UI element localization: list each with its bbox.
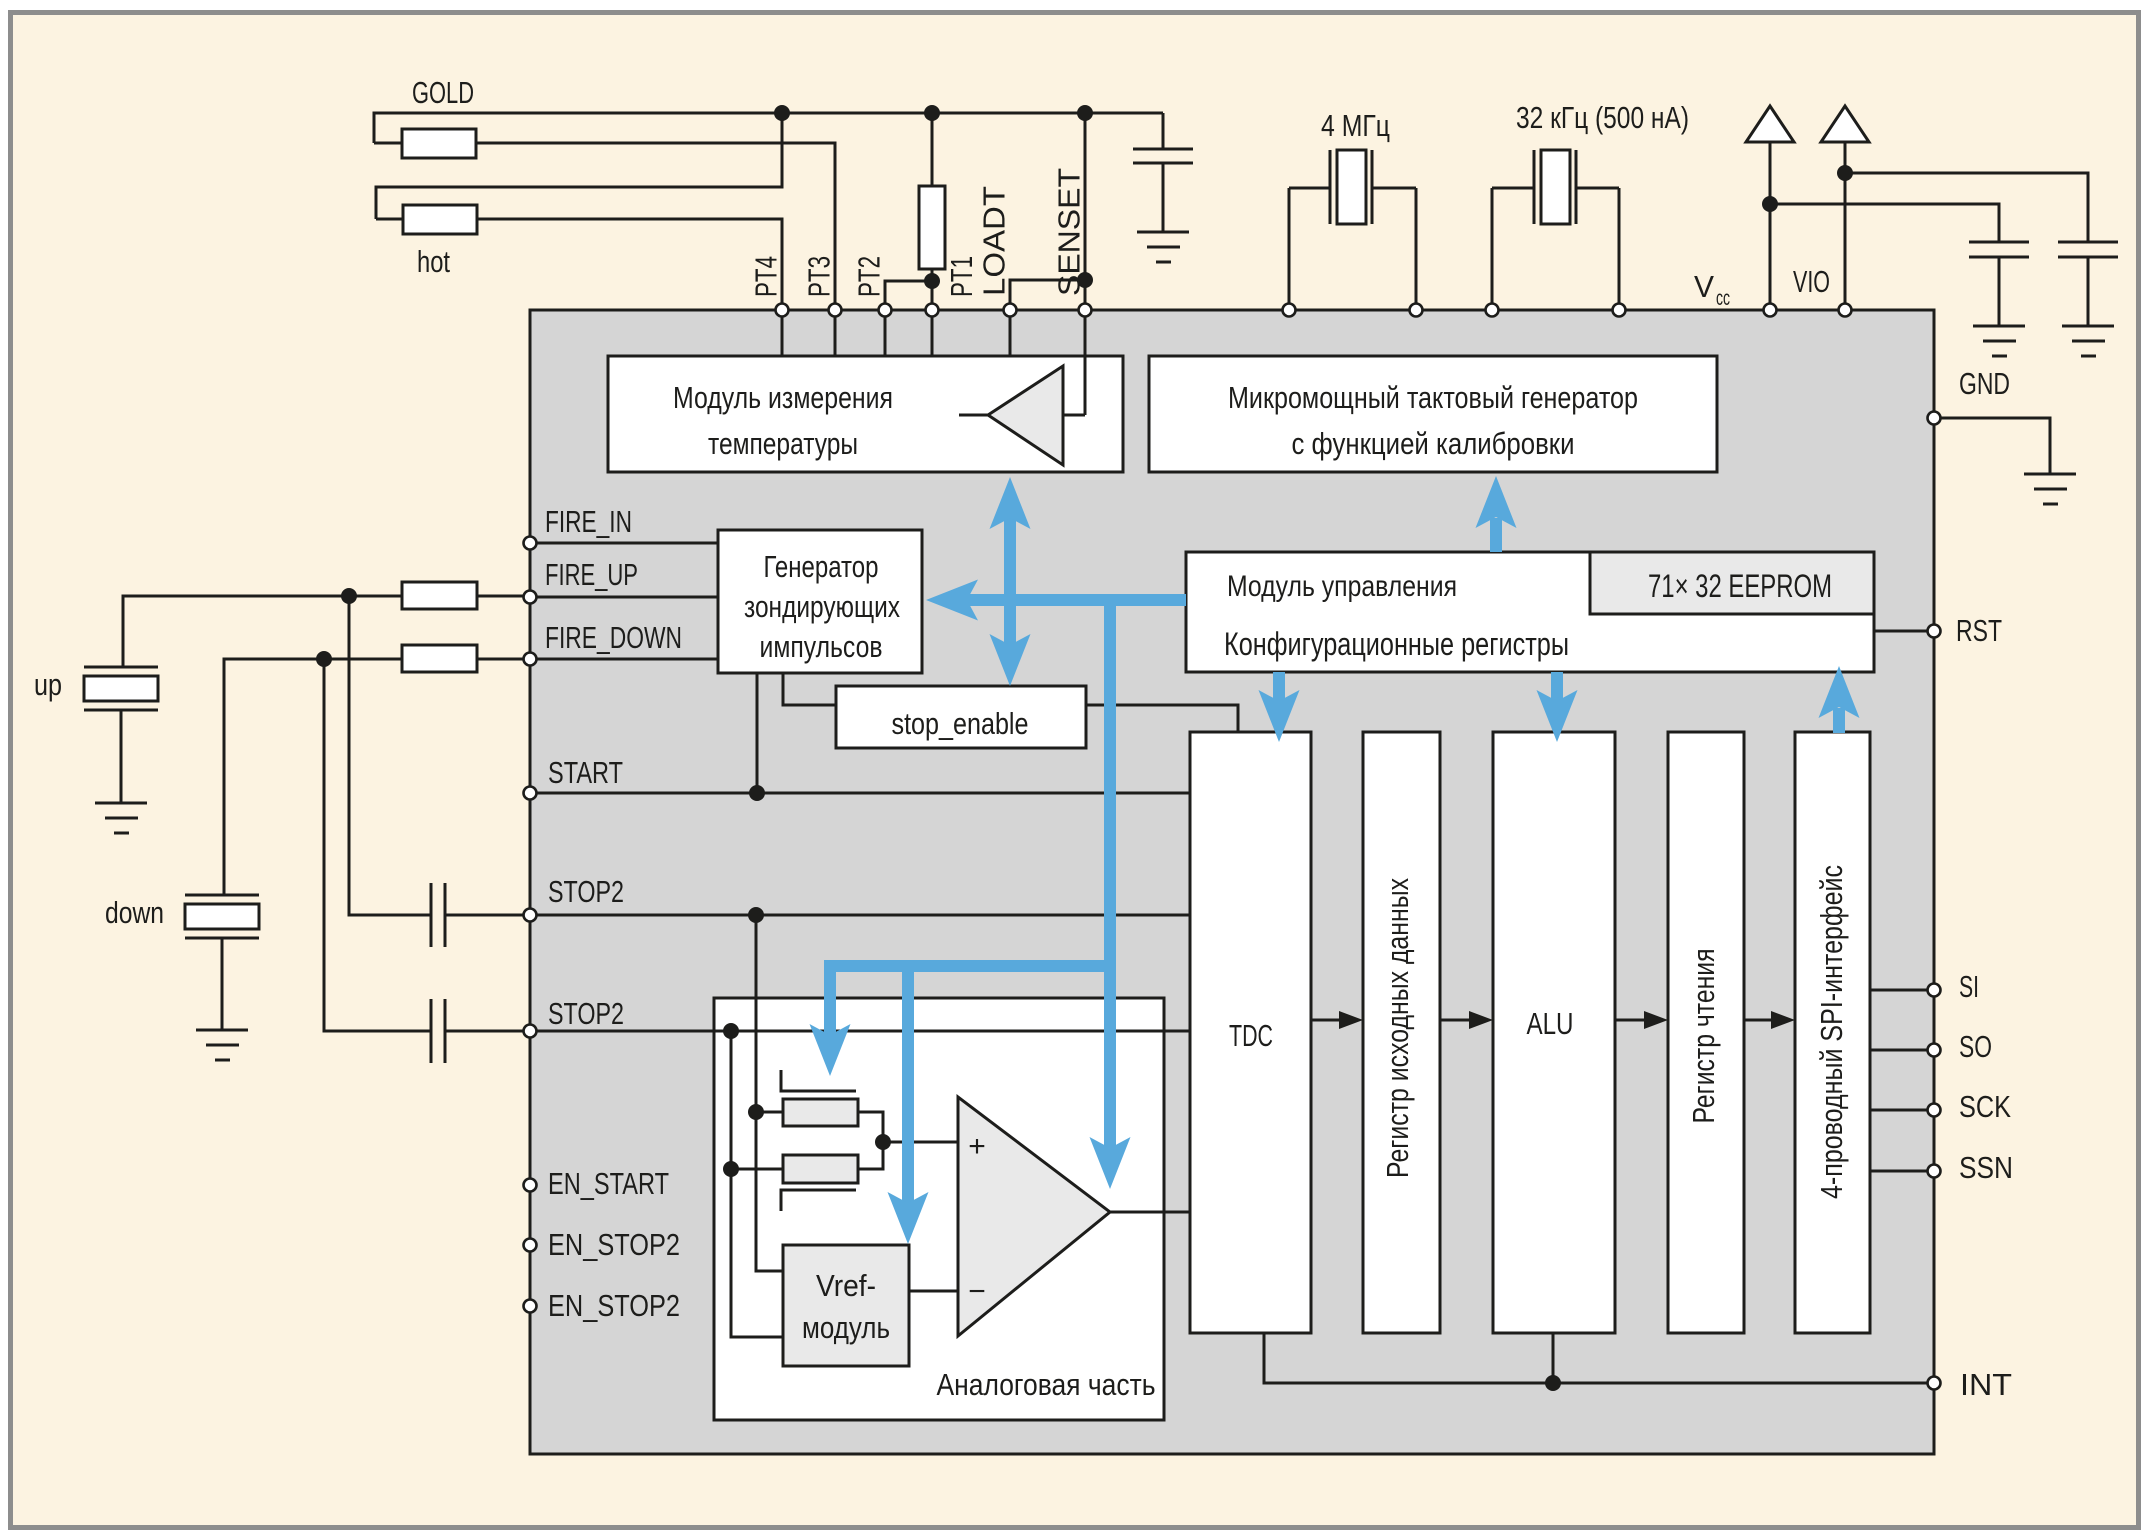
wire R-up right <box>858 1112 883 1169</box>
ground C4 <box>2062 325 2114 328</box>
svg-text:hot: hot <box>417 244 450 279</box>
arrow TDC to reg1 <box>1311 1019 1341 1022</box>
register SPI box <box>1795 732 1870 1333</box>
register TDC box <box>1190 732 1311 1333</box>
pin RST <box>1928 625 1941 638</box>
svg-text:температуры: температуры <box>708 426 858 461</box>
wire Vcc <box>1769 142 1772 310</box>
wire Vcc to C3 <box>1770 204 1999 242</box>
wire PT1 column <box>931 113 934 186</box>
blue arrow to R-up <box>824 960 836 1037</box>
pin STOP2-1 <box>524 909 537 922</box>
node INT <box>1545 1375 1561 1391</box>
wire GOLD top rail <box>374 113 1163 143</box>
svg-text:Аналоговая часть: Аналоговая часть <box>937 1367 1156 1402</box>
module clock-generator box <box>1149 356 1717 472</box>
node LOADT/SENSET junction <box>1077 272 1093 288</box>
pin XOUT2 <box>1613 304 1626 317</box>
bracket R-down <box>781 1190 856 1211</box>
capacitor C2 <box>430 999 433 1063</box>
pin PT4 <box>776 304 789 317</box>
wire comparator out <box>1110 1211 1190 1214</box>
node START <box>749 785 765 801</box>
node PT2/PT1 junction <box>924 273 940 289</box>
node STOP2-2 <box>723 1023 739 1039</box>
svg-text:FIRE_DOWN: FIRE_DOWN <box>545 620 682 655</box>
svg-text:SSN: SSN <box>1959 1150 2013 1185</box>
svg-text:32 кГц (500 нА): 32 кГц (500 нА) <box>1516 100 1689 135</box>
svg-text:модуль: модуль <box>802 1310 890 1345</box>
wire FIRE_UP internal <box>530 596 718 599</box>
svg-text:TDC: TDC <box>1229 1018 1273 1053</box>
arrow ALU to reg2 <box>1615 1019 1646 1022</box>
svg-text:GND: GND <box>1959 366 2010 401</box>
capacitor C4 <box>2058 241 2118 244</box>
pin FIRE_IN <box>524 537 537 550</box>
wire VIO to C4 <box>1845 173 2088 242</box>
pin SCK <box>1928 1104 1941 1117</box>
module temperature-measure box <box>608 356 1123 472</box>
node R-up tap <box>748 1104 764 1120</box>
arrow reg2 to SPI <box>1744 1019 1773 1022</box>
blue arrow temp/stop_enable <box>1004 516 1016 647</box>
svg-text:+: + <box>968 1130 986 1163</box>
svg-text:4-проводный SPI-интерфейс: 4-проводный SPI-интерфейс <box>1814 865 1849 1199</box>
wire INT <box>1264 1333 1934 1383</box>
module fire-pulse-generator box <box>718 530 922 673</box>
register raw-data box <box>1363 732 1440 1333</box>
pin EN_START <box>524 1179 537 1192</box>
module stop_enable box <box>836 686 1086 748</box>
node FIRE_DOWN <box>316 651 332 667</box>
pin LOADT <box>1004 304 1017 317</box>
wire hot top <box>376 113 782 219</box>
wire LOADT elbow <box>1010 280 1085 310</box>
resistor R-firedown <box>402 645 477 672</box>
node rail PT1 <box>924 105 940 121</box>
blue arrow control to TDC <box>1273 672 1285 703</box>
node R-down tap <box>723 1161 739 1177</box>
wire PT2 elbow <box>885 281 932 310</box>
ground C-load <box>1137 231 1189 234</box>
node FIRE_UP <box>341 588 357 604</box>
svg-text:START: START <box>548 755 623 790</box>
transducer down <box>185 894 259 897</box>
wire R-hot to PT4 <box>477 219 782 310</box>
pin FIRE_DOWN <box>524 653 537 666</box>
svg-text:SCK: SCK <box>1959 1089 2011 1124</box>
svg-text:PT4: PT4 <box>749 256 784 297</box>
blue arrow control to generator <box>964 594 1186 606</box>
wire Vref to comparator minus <box>909 1290 958 1293</box>
wire STOP2-2 internal <box>530 1030 1190 1033</box>
svg-text:SI: SI <box>1959 969 1979 1004</box>
node STOP2-1 <box>748 907 764 923</box>
wire pins to temp module <box>781 310 784 356</box>
svg-text:PT2: PT2 <box>852 256 887 297</box>
pin GND <box>1928 412 1941 425</box>
svg-text:EN_STOP2: EN_STOP2 <box>548 1227 680 1262</box>
wire GND <box>1934 418 2050 474</box>
svg-text:GOLD: GOLD <box>412 75 474 110</box>
svg-text:PT1: PT1 <box>944 256 979 297</box>
svg-text:PT3: PT3 <box>802 256 837 297</box>
pin XIN2 <box>1486 304 1499 317</box>
wire STOP2-1 internal <box>530 914 1190 917</box>
svg-text:4 МГц: 4 МГц <box>1321 108 1390 143</box>
svg-text:71× 32 EEPROM: 71× 32 EEPROM <box>1648 568 1832 604</box>
svg-text:Модуль измерения: Модуль измерения <box>673 380 893 415</box>
comparator <box>958 1097 1110 1336</box>
wire rail to C-load <box>1162 113 1165 149</box>
ground up <box>95 802 147 805</box>
capacitor C1 <box>430 883 433 947</box>
svg-text:Генератор: Генератор <box>764 549 879 584</box>
register read box <box>1668 732 1744 1333</box>
module Vref box <box>783 1245 909 1366</box>
wire to R-up <box>756 1111 783 1114</box>
svg-text:SENSET: SENSET <box>1052 168 1087 296</box>
wire SENSET to op-amp <box>1084 310 1087 415</box>
node VIO <box>1837 165 1853 181</box>
node Vcc <box>1762 196 1778 212</box>
wire STOP2-2 external <box>324 659 431 1031</box>
svg-text:импульсов: импульсов <box>760 629 883 664</box>
capacitor C3 <box>1969 241 2029 244</box>
power symbol VIO <box>1821 106 1869 142</box>
svg-text:Микромощный тактовый генератор: Микромощный тактовый генератор <box>1228 380 1638 415</box>
svg-text:VIO: VIO <box>1793 264 1830 299</box>
ground C3 <box>1973 325 2025 328</box>
transducer up <box>84 666 158 669</box>
node rail PT4 <box>774 105 790 121</box>
module control box <box>1186 552 1874 672</box>
pin STOP2-2 <box>524 1025 537 1038</box>
wire FIRE_DOWN left <box>224 659 402 895</box>
pin PT3 <box>829 304 842 317</box>
blue line control down <box>1104 594 1116 1150</box>
bracket R-up <box>781 1070 856 1091</box>
resistor R-hot <box>376 218 403 221</box>
module EEPROM box <box>1590 552 1874 614</box>
blue arrow control to ALU <box>1551 672 1563 703</box>
svg-text:STOP2: STOP2 <box>548 874 624 909</box>
svg-text:Регистр чтения: Регистр чтения <box>1686 949 1721 1124</box>
svg-text:STOP2: STOP2 <box>548 996 624 1031</box>
capacitor C-load <box>1133 148 1193 151</box>
wire SSN <box>1870 1170 1934 1173</box>
resistor R-gold <box>374 142 402 145</box>
svg-text:up: up <box>34 667 62 702</box>
blue line analog branch <box>824 960 1116 972</box>
power symbol Vcc <box>1746 106 1794 142</box>
pin VIO <box>1839 304 1852 317</box>
wire VIO <box>1844 142 1847 310</box>
resistor R-fireup <box>402 582 477 609</box>
svg-text:с функцией калибровки: с функцией калибровки <box>1292 426 1575 461</box>
wire SCK <box>1870 1109 1934 1112</box>
pin Vcc <box>1764 304 1777 317</box>
wire SI <box>1870 989 1934 992</box>
wire down to ground <box>221 938 224 1030</box>
wire FIRE_DOWN internal <box>530 658 718 661</box>
svg-text:INT: INT <box>1960 1367 2012 1402</box>
svg-text:FIRE_IN: FIRE_IN <box>545 504 632 539</box>
chip body <box>530 310 1934 1454</box>
pin START <box>524 787 537 800</box>
wire FIRE_UP left <box>123 596 402 667</box>
svg-text:EN_START: EN_START <box>548 1166 669 1201</box>
register ALU box <box>1493 732 1615 1333</box>
svg-text:ALU: ALU <box>1527 1006 1574 1041</box>
svg-text:V: V <box>1694 269 1714 304</box>
svg-text:SO: SO <box>1959 1029 1992 1064</box>
wire STOP2-2 tap to Vref <box>731 1031 783 1337</box>
wire generator to START <box>756 673 759 793</box>
wire STOP2-1 external <box>349 596 431 915</box>
node rail SENSET <box>1077 105 1093 121</box>
op-amp temperature <box>988 366 1063 465</box>
analog part box <box>714 998 1164 1420</box>
wire RST <box>1874 630 1934 633</box>
wire to comparator plus <box>883 1141 958 1144</box>
svg-text:LOADT: LOADT <box>977 186 1012 296</box>
blue arrow to Vref <box>902 960 914 1204</box>
pin EN_STOP2-1 <box>524 1239 537 1252</box>
wire to R-down <box>731 1168 783 1171</box>
pin XIN1 <box>1283 304 1296 317</box>
resistor R-down <box>783 1155 858 1183</box>
svg-text:Конфигурационные регистры: Конфигурационные регистры <box>1224 626 1569 662</box>
pin SO <box>1928 1044 1941 1057</box>
resistor R-up <box>783 1099 858 1126</box>
wire X1 legs <box>1288 188 1291 310</box>
wire R-gold to PT3 <box>476 143 835 310</box>
ground GND <box>2024 473 2076 476</box>
blue arrow SPI to control <box>1833 708 1845 733</box>
pin PT1 <box>926 304 939 317</box>
wire up to ground <box>120 710 123 803</box>
wire X2 legs <box>1491 188 1494 310</box>
svg-text:Vref-: Vref- <box>816 1268 876 1303</box>
pin XOUT1 <box>1410 304 1423 317</box>
svg-text:−: − <box>968 1275 986 1308</box>
wire STOP2-1 tap to Vref <box>756 915 783 1271</box>
svg-text:EN_STOP2: EN_STOP2 <box>548 1288 680 1323</box>
svg-text:RST: RST <box>1956 613 2002 648</box>
svg-text:down: down <box>105 895 164 930</box>
svg-text:FIRE_UP: FIRE_UP <box>545 557 638 592</box>
pin SSN <box>1928 1165 1941 1178</box>
svg-text:stop_enable: stop_enable <box>892 706 1029 741</box>
pin PT2 <box>879 304 892 317</box>
svg-text:Регистр исходных данных: Регистр исходных данных <box>1380 878 1415 1178</box>
wire ALU to INT <box>1552 1333 1555 1383</box>
node comparator input <box>875 1134 891 1150</box>
pin INT <box>1928 1377 1941 1390</box>
pin SI <box>1928 984 1941 997</box>
pin FIRE_UP <box>524 591 537 604</box>
svg-text:зондирующих: зондирующих <box>744 589 900 624</box>
wire SENSET column <box>1084 113 1087 310</box>
svg-text:cc: cc <box>1716 287 1730 310</box>
wire SO <box>1870 1049 1934 1052</box>
wire FIRE_IN <box>530 542 718 545</box>
arrow reg1 to ALU <box>1440 1019 1471 1022</box>
svg-text:Модуль управления: Модуль управления <box>1227 570 1457 603</box>
pin SENSET <box>1079 304 1092 317</box>
pin EN_STOP2-2 <box>524 1300 537 1313</box>
crystal X2 32kHz <box>1492 187 1534 190</box>
wire stop_enable to TDC <box>1086 705 1238 732</box>
wire generator to stop_enable <box>783 673 836 705</box>
ground down <box>196 1029 248 1032</box>
blue arrow control to clock <box>1490 518 1502 552</box>
wire START <box>530 792 1190 795</box>
resistor R-pt1 <box>919 186 945 269</box>
crystal X1 4MHz <box>1289 187 1330 190</box>
